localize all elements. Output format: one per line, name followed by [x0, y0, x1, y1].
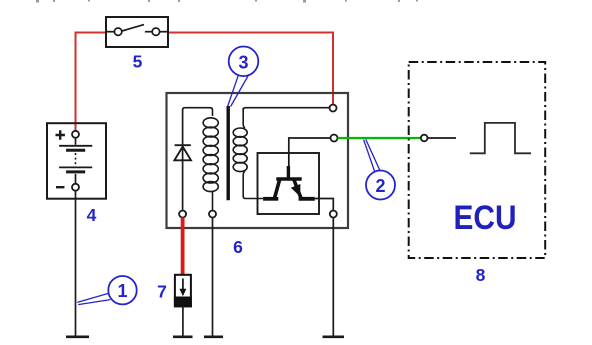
wire: diode branch + top link to primary coil [183, 108, 210, 211]
svg-text:3: 3 [238, 52, 248, 72]
callout label 2 [364, 139, 395, 199]
terminal: relay pin bottom-right [330, 211, 337, 218]
connector node 2 [421, 135, 428, 142]
switch S5 [106, 17, 168, 47]
wire: load 7 to ground [182, 306, 184, 336]
wire: battery + up to switch (red) [76, 33, 106, 132]
svg-text:7: 7 [157, 282, 167, 302]
callout label 3 [228, 47, 259, 107]
svg-text:8: 8 [476, 265, 486, 285]
svg-text:4: 4 [87, 205, 97, 225]
wire: secondary top to terminal 86 [243, 108, 329, 110]
svg-text:5: 5 [133, 52, 143, 72]
terminal: relay pin top-right (battery feed) [330, 105, 337, 112]
wire: bottom-right terminal to ground [332, 218, 334, 336]
ground (battery branch) [66, 335, 89, 338]
ground (coil branch) [204, 335, 223, 338]
wire: switch to relay terminal, top run (red) [168, 33, 333, 106]
cropped text fragments at top [36, 0, 418, 3]
relay core bar [226, 106, 229, 200]
ground (load 7 branch) [173, 335, 193, 338]
pulse signal symbol [470, 123, 531, 153]
load 7 (fuse/injector) [175, 275, 191, 307]
wire: bottom-middle terminal to ground [212, 218, 214, 336]
secondary winding (coil 2) [233, 108, 263, 199]
wire: connector into ECU [428, 137, 457, 139]
svg-text:ECU: ECU [454, 199, 517, 237]
ECU box 8 [409, 62, 546, 258]
wire: bottom-left terminal to load 7 (red, thick) [181, 218, 185, 275]
terminal: relay pin bottom-middle [209, 211, 216, 218]
svg-text:2: 2 [375, 176, 385, 196]
terminal: relay pin bottom-left [179, 211, 186, 218]
transistor VT (stylized) [263, 153, 315, 199]
wire: emitter to bottom-right terminal [315, 199, 334, 211]
svg-text:6: 6 [233, 237, 243, 257]
primary winding (coil 1) [203, 108, 218, 211]
ground (emitter branch) [323, 335, 345, 338]
svg-text:1: 1 [117, 281, 127, 301]
wire: battery - down to ground [75, 191, 77, 336]
diode VD [174, 145, 191, 160]
terminal: relay pin right (control, green) [331, 135, 338, 142]
callout label 1 [77, 276, 136, 305]
wire: control terminal to ECU connector (green) [338, 137, 422, 139]
battery G4 [47, 123, 106, 199]
relay module box 6 [167, 93, 349, 228]
wire: control node to transistor base [289, 138, 331, 153]
transistor box [258, 153, 320, 214]
